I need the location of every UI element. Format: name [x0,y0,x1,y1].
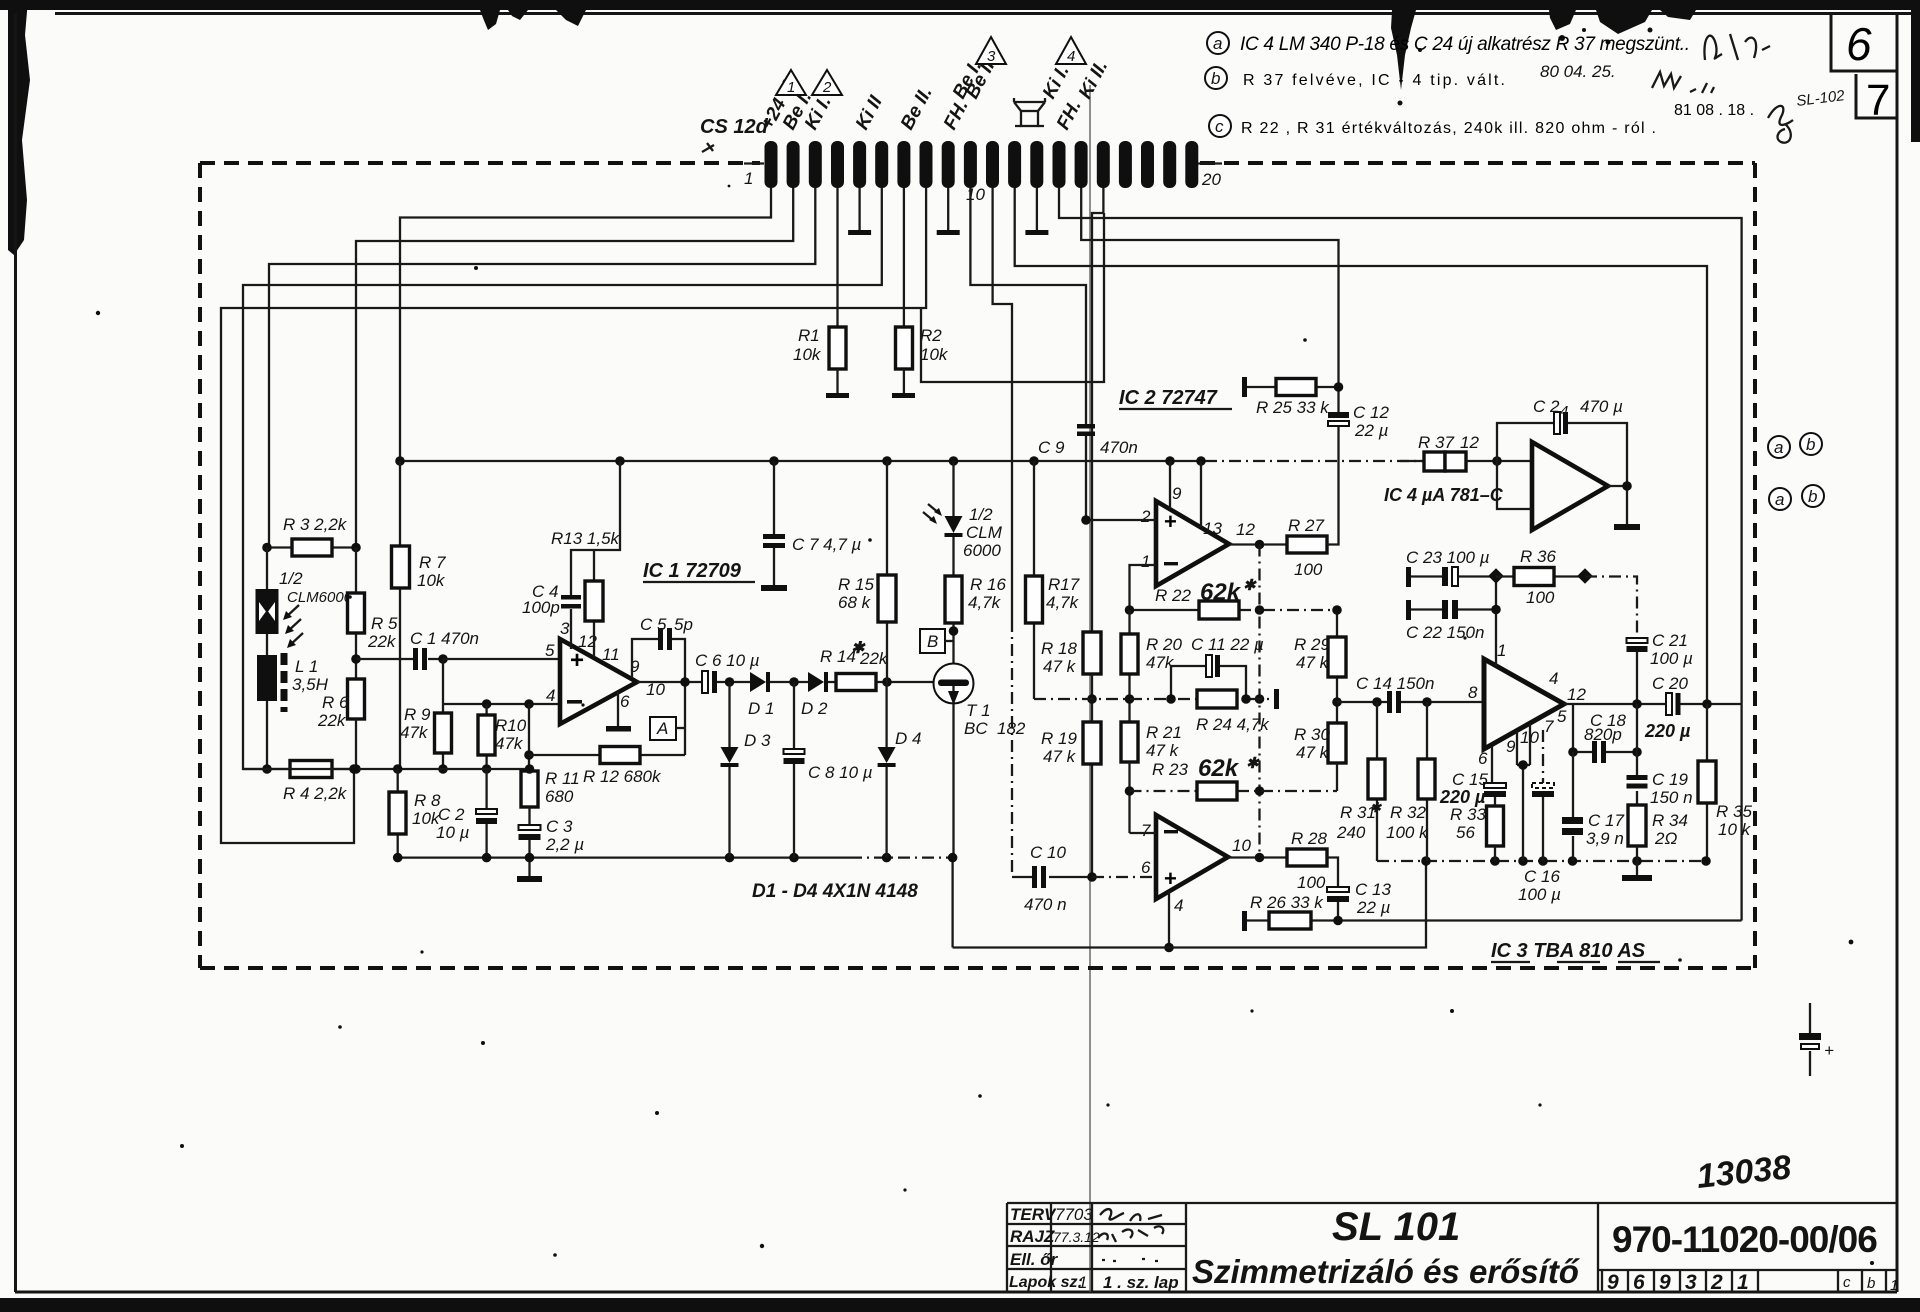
sheet index box 7 [1856,74,1897,125]
svg-text:20: 20 [1201,170,1221,189]
svg-text:9: 9 [1607,1271,1619,1294]
svg-text:Ell. őr: Ell. őr [1010,1250,1059,1269]
resistor R18 47k [1083,632,1101,674]
wire IC2b output [1228,856,1287,858]
svg-text:IC 4 LM 340 P-18 és C 24 új: IC 4 LM 340 P-18 és C 24 új alkatrész R … [1240,34,1690,55]
resistor R15 68k [886,461,888,682]
svg-text:6000: 6000 [963,541,1001,560]
capacitor C10 470n [1012,876,1092,878]
resistor R6 22k [348,679,365,719]
svg-text:12: 12 [1236,520,1255,539]
svg-text:3,9 n: 3,9 n [1586,829,1624,848]
svg-text:R 33: R 33 [1450,805,1486,824]
svg-text:7703: 7703 [1055,1205,1093,1224]
title block table [1007,1203,1896,1292]
wire IC2a + input [1086,519,1156,521]
resistor R5 22k [355,548,357,680]
node +24V rail junction [949,456,959,466]
resistor R28 100 [1287,849,1327,866]
svg-text:6: 6 [1633,1271,1645,1294]
svg-text:R1: R1 [798,326,820,345]
svg-text:12: 12 [1567,685,1586,704]
node C1 tap [351,654,361,664]
wire 0V bus left [398,856,850,858]
resistor R13 1,5k [593,550,595,657]
svg-text:22 µ: 22 µ [1356,898,1391,917]
ground (connector pin stub) [858,188,860,230]
diode D3 [728,682,730,858]
resistor R8 10k [397,769,399,858]
svg-text:D 3: D 3 [744,731,771,750]
capacitor C13 22µ [1327,887,1349,892]
wire IC3 pin9 pin10 stubs [1517,724,1530,861]
svg-text:2: 2 [822,79,832,96]
resistor R24 4,7k [1197,690,1237,708]
wire IC2b pin4 [1168,891,1170,948]
svg-text:68 k: 68 k [838,593,872,612]
svg-text:TERV: TERV [1010,1205,1057,1224]
speaker icon (pin 12) [1014,98,1045,126]
LED 1/2 CLM6000 (left) [266,548,268,656]
svg-text:C 8 10 µ: C 8 10 µ [808,763,873,782]
svg-text:8: 8 [1468,683,1478,702]
svg-text:R 18: R 18 [1041,639,1077,658]
wire pin10 [970,188,1086,424]
svg-text:7: 7 [1544,717,1554,736]
wire feedback column [1258,545,1260,858]
svg-text:1: 1 [787,79,795,96]
svg-text:R 23: R 23 [1152,760,1188,779]
svg-text:R 36: R 36 [1520,547,1556,566]
capacitor symbol (margin note) [1809,1003,1811,1076]
svg-text:1: 1 [1141,552,1150,571]
svg-text:b: b [1806,435,1815,454]
resistor R37 12 [1400,460,1424,462]
svg-text:470n: 470n [1100,438,1138,457]
svg-text:12: 12 [1460,433,1479,452]
svg-text:100 k: 100 k [1386,823,1429,842]
node diamond (pin1) [1488,568,1504,584]
svg-text:R 3 2,2k: R 3 2,2k [283,515,348,534]
svg-text:✱: ✱ [1246,755,1260,772]
wire IC3 pin1 [1495,576,1497,666]
capacitor C2 10µ [485,769,487,858]
svg-text:C 20: C 20 [1652,674,1688,693]
revision note a [1207,32,1770,60]
svg-text:470 µ: 470 µ [1580,397,1623,416]
capacitor C22 150n [1406,600,1411,620]
svg-text:C 23 100 µ: C 23 100 µ [1406,548,1490,567]
svg-text:77.3.12: 77.3.12 [1053,1229,1100,1245]
svg-text:A: A [656,719,668,738]
svg-text:a: a [1775,490,1784,509]
capacitor C14 150n [1337,701,1484,703]
svg-text:6: 6 [1141,858,1151,877]
svg-text:22k: 22k [367,632,397,651]
resistor R31 240 [1376,702,1378,861]
svg-text:R 6: R 6 [322,693,349,712]
svg-text:47k: 47k [400,723,429,742]
svg-text:CLM6000: CLM6000 [287,589,353,606]
wire pin7 to R2 [903,188,905,327]
svg-text:R 5: R 5 [371,614,398,633]
title block drawing number [1598,1203,1896,1292]
svg-text:✱: ✱ [1370,800,1382,815]
revision marks a b (row2) [1769,488,1791,510]
svg-text:182: 182 [997,719,1026,738]
svg-text:22k: 22k [859,649,889,668]
svg-text:10: 10 [1232,836,1251,855]
svg-text:R17: R17 [1048,575,1080,594]
wire IC2a - input [1130,565,1157,610]
LED 1/2 CLM6000 (right) [952,461,954,576]
revision note c [1209,87,1846,143]
wire pin14 feedback line [1059,188,1742,921]
svg-text:c: c [1215,117,1224,136]
svg-text:100: 100 [1526,588,1555,607]
wire pin11 [993,188,1012,620]
svg-text:4: 4 [1560,403,1568,420]
svg-text:C 2: C 2 [1533,397,1560,416]
resistor R1 10k [829,327,846,369]
wire C10 to IC2b + input [1092,876,1156,878]
svg-text:R 37: R 37 [1418,433,1454,452]
resistor R11 680 [528,704,530,771]
svg-text:4: 4 [1549,669,1558,688]
resistor R30 47k [1328,723,1346,763]
svg-text:10k: 10k [793,345,822,364]
svg-text:+: + [1164,509,1177,534]
resistor R7 10k [399,461,401,769]
svg-text:470 n: 470 n [1024,895,1067,914]
svg-text:R 22: R 22 [1155,586,1191,605]
wire pin12 speaker line [1015,188,1707,704]
resistor R9 47k [442,659,444,769]
svg-text:4,7k: 4,7k [968,593,1002,612]
svg-text:b: b [1211,69,1220,88]
main dashed border [200,163,1755,968]
sheet index box 6 [1831,12,1897,71]
svg-text:3: 3 [560,619,570,638]
svg-text:100 µ: 100 µ [1518,885,1561,904]
wire IC2a pin9 stub [1169,461,1171,509]
wire IC4 lower input [1497,461,1532,509]
pen tick mark [702,143,714,152]
resistor R4 2,2k [267,768,356,770]
svg-text:2: 2 [1140,507,1151,526]
scan border top bar [0,0,1920,10]
svg-text:2,2 µ: 2,2 µ [545,835,584,854]
wire bus (R4 R6 R9 R10 R11 row) [243,768,530,770]
svg-text:IC 1 72709: IC 1 72709 [643,560,742,582]
ground (below R2) [903,369,905,393]
ground (below C3) [528,858,530,876]
svg-text:R 20: R 20 [1146,635,1182,654]
svg-text:1: 1 [1737,1271,1749,1294]
revision triangle 4 [1056,37,1086,64]
op-amp IC2a [1156,501,1229,586]
node +24V rail junction [1196,456,1206,466]
svg-text:100: 100 [1294,560,1323,579]
wire pin2 Be I. input [356,188,793,548]
svg-text:D 2: D 2 [801,699,828,718]
svg-text:10k: 10k [417,571,446,590]
svg-text:7: 7 [1866,76,1890,125]
wire R17/R24 node line [1034,698,1276,700]
ground (IC4 output) [1614,524,1640,530]
wire C1 to IC1 + input [443,658,560,660]
svg-text:1: 1 [1890,1277,1898,1294]
capacitor C11 22µ [1171,666,1246,699]
revision triangle 3 [976,37,1006,64]
ground (connector pin stub) [947,188,949,230]
revision triangle 1 [776,70,806,95]
svg-text:C 12: C 12 [1353,403,1389,422]
svg-text:6: 6 [620,692,630,711]
svg-text:1 . sz. lap: 1 . sz. lap [1103,1273,1179,1292]
wire IC1 pin6 ground stub [617,692,619,726]
capacitor C1 470n [356,658,443,660]
svg-text:R 12 680k: R 12 680k [583,767,662,786]
capacitor C9 470n [1077,424,1095,429]
svg-text:R 21: R 21 [1146,723,1182,742]
capacitor C19 150n [1636,704,1638,805]
svg-text:R 26 33 k: R 26 33 k [1250,893,1324,912]
svg-text:100 µ: 100 µ [1650,649,1693,668]
svg-text:2Ω: 2Ω [1654,829,1677,848]
transistor T1 BC182 [934,664,974,704]
wire pin16 [1092,188,1103,632]
ground (below R1) [836,369,838,393]
svg-text:11: 11 [602,645,620,664]
capacitor C20 220µ [1666,693,1672,715]
svg-text:3: 3 [1685,1271,1697,1294]
svg-text:820p: 820p [1584,725,1622,744]
wire pin3 Ki I. [269,188,815,548]
wire pin8 to pin16 loop [921,213,1104,382]
ground (connector pin stub) [1036,188,1038,230]
svg-text:680: 680 [545,787,574,806]
resistor R12 680k [529,754,685,756]
svg-text:6: 6 [1478,749,1488,768]
capacitor C6 10µ [702,671,708,693]
capacitor C12 22µ [1328,412,1349,418]
svg-text:+: + [1824,1041,1834,1060]
op-amp IC4 µA781 [1532,442,1608,530]
svg-text:R 8: R 8 [414,791,441,810]
svg-text:B: B [927,632,938,651]
wire +24V rail [400,460,1205,462]
diode D2 [808,672,824,692]
wire pin8 [221,188,926,843]
wire pin4 to R1 [836,188,838,327]
svg-text:62k: 62k [1198,755,1240,782]
svg-text:R10: R10 [495,716,527,735]
resistor R27 100 [1287,536,1327,553]
wire IC1 output line [637,681,934,683]
svg-text:5p: 5p [674,615,693,634]
diode D1 [750,672,766,692]
svg-text:C 9: C 9 [1038,438,1065,457]
svg-text:SL 101: SL 101 [1332,1205,1460,1249]
svg-text:10 µ: 10 µ [436,823,470,842]
svg-text:R 4 2,2k: R 4 2,2k [283,784,348,803]
svg-text:C 6 10 µ: C 6 10 µ [695,651,760,670]
svg-text:10k: 10k [920,345,949,364]
svg-text:+: + [1164,866,1177,891]
test point box A [650,717,676,740]
svg-text:5: 5 [545,641,555,660]
svg-text:47 k: 47 k [1296,743,1330,762]
resistor R20 47k [1128,610,1130,722]
scan specks [96,185,1874,1265]
svg-text:80 04. 25.: 80 04. 25. [1540,62,1616,81]
svg-text:C 2: C 2 [438,805,465,824]
capacitor C15 220µ [1491,746,1493,783]
svg-text:4: 4 [546,686,555,705]
svg-text:47 k: 47 k [1043,747,1077,766]
op-amp IC3 TBA810AS [1484,659,1564,749]
svg-text:6: 6 [1846,18,1872,70]
svg-text:D 4: D 4 [895,729,921,748]
svg-text:R2: R2 [920,326,942,345]
svg-text:220 µ: 220 µ [1644,721,1691,741]
svg-text:R 7: R 7 [419,553,446,572]
wire L1 to R4 [266,701,268,769]
svg-text:R 28: R 28 [1291,829,1327,848]
svg-text:47 k: 47 k [1296,653,1330,672]
svg-text:C 16: C 16 [1524,867,1560,886]
diode D4 [885,682,887,858]
capacitor C5 5p [632,639,685,682]
svg-text:220 µ: 220 µ [1439,787,1486,807]
wire IC2a output [1229,543,1287,545]
wire pin15 [1081,188,1338,377]
svg-text:240: 240 [1336,823,1366,842]
wire IC1 pin4 input line [443,703,560,705]
svg-text:C 7 4,7 µ: C 7 4,7 µ [792,535,862,554]
svg-text:IC 3 TBA 810 AS: IC 3 TBA 810 AS [1491,940,1646,962]
resistor R14 22k [836,674,876,691]
svg-text:9: 9 [1659,1271,1671,1294]
svg-text:T 1: T 1 [966,701,991,720]
resistor R19 47k [1091,674,1093,877]
svg-text:1: 1 [1078,1273,1087,1292]
svg-text:R 9: R 9 [404,705,431,724]
wire 0V rail right [1377,860,1706,862]
node +24V rail junction [882,456,892,466]
svg-text:47 k: 47 k [1043,657,1077,676]
svg-text:C 17: C 17 [1588,811,1624,830]
wire IC3 output [1564,703,1741,705]
svg-text:C 13: C 13 [1355,880,1391,899]
fold line [1089,85,1091,1292]
capacitor C8 10µ [793,682,795,858]
svg-text:D 1: D 1 [748,699,774,718]
svg-text:7: 7 [1141,821,1151,840]
resistor R25 33k [1242,377,1247,397]
svg-text:22k: 22k [317,711,347,730]
svg-text:C 14 150n: C 14 150n [1356,674,1434,693]
wire pin5 stub [1572,704,1574,752]
svg-text:1: 1 [744,169,753,188]
svg-text:C 10: C 10 [1030,843,1066,862]
svg-text:4,7k: 4,7k [1046,593,1080,612]
revision triangle 2 [812,70,842,95]
svg-text:BC: BC [964,719,988,738]
wire IC2b - input [1130,832,1157,834]
wire IC4 output to ground [1608,486,1627,524]
svg-text:4: 4 [1174,896,1183,915]
resistor R32 100k [1426,702,1428,861]
svg-text:R 34: R 34 [1652,811,1688,830]
svg-text:Lapok sz:: Lapok sz: [1009,1274,1083,1291]
capacitor C18 820p [1573,751,1637,753]
svg-text:R 30: R 30 [1294,725,1330,744]
svg-text:R 24 4,7k: R 24 4,7k [1196,715,1270,734]
capacitor C23 100µ [1406,567,1411,587]
revision note b [1205,62,1714,93]
capacitor C17 3,9n [1572,752,1574,861]
svg-text:C 21: C 21 [1652,631,1688,650]
resistor R21 47k [1121,722,1138,762]
svg-text:D1 - D4 4X1N 4148: D1 - D4 4X1N 4148 [752,881,918,902]
scan border right edge [1911,10,1920,142]
resistor R34 2Ω [1628,805,1646,846]
svg-text:IC 2 72747: IC 2 72747 [1119,387,1218,409]
svg-text:✱: ✱ [1243,577,1257,594]
svg-text:a: a [1213,34,1222,53]
resistor R23 62k [1130,790,1338,792]
svg-text:R13 1,5k: R13 1,5k [551,529,621,548]
op-amp IC2b [1156,815,1228,899]
svg-text:R 25 33 k: R 25 33 k [1256,398,1330,417]
svg-text:9: 9 [1506,737,1516,756]
revision marks a b (row1) [1768,436,1790,458]
node +24V rail junction [1029,456,1039,466]
resistor R16 4,7k [945,576,962,623]
wire dashed lead from pin20 [1198,162,1222,164]
wire dashed lead to pin1 [744,162,764,164]
resistor R36 100 [1496,575,1585,577]
svg-text:R 16: R 16 [970,575,1006,594]
svg-text:R 22 , R 31 értékváltozás, 240: R 22 , R 31 értékváltozás, 240k ill. 820… [1241,120,1656,137]
svg-text:IC 4 µA 781–C: IC 4 µA 781–C [1384,485,1504,505]
svg-text:10 k: 10 k [1718,820,1752,839]
svg-text:R 27: R 27 [1288,516,1324,535]
svg-text:R 29: R 29 [1294,635,1330,654]
wire IC2a pin13 stub [1200,461,1202,527]
capacitor C7 4,7µ [773,461,775,585]
wire pin1 +24V feed [400,188,771,461]
svg-text:R 19: R 19 [1041,729,1077,748]
resistor R29 47k [1336,610,1338,723]
resistor R17 4,7k [1033,461,1035,699]
node +24V rail junction [769,456,779,466]
svg-text:C 11 22 µ: C 11 22 µ [1191,635,1264,654]
capacitor C16 100µ [1542,730,1544,783]
title block revision digits [1602,1270,1886,1292]
ground (0V rail) [1636,861,1638,875]
svg-text:RAJZ: RAJZ [1010,1227,1055,1246]
svg-text:13: 13 [1203,519,1222,538]
wire 0V rail [953,861,1426,948]
svg-text:3: 3 [987,48,996,65]
node +24V rail junction [1165,456,1175,466]
svg-text:+: + [570,647,584,674]
wire pin6 [243,188,882,762]
svg-text:c: c [1843,1274,1851,1291]
